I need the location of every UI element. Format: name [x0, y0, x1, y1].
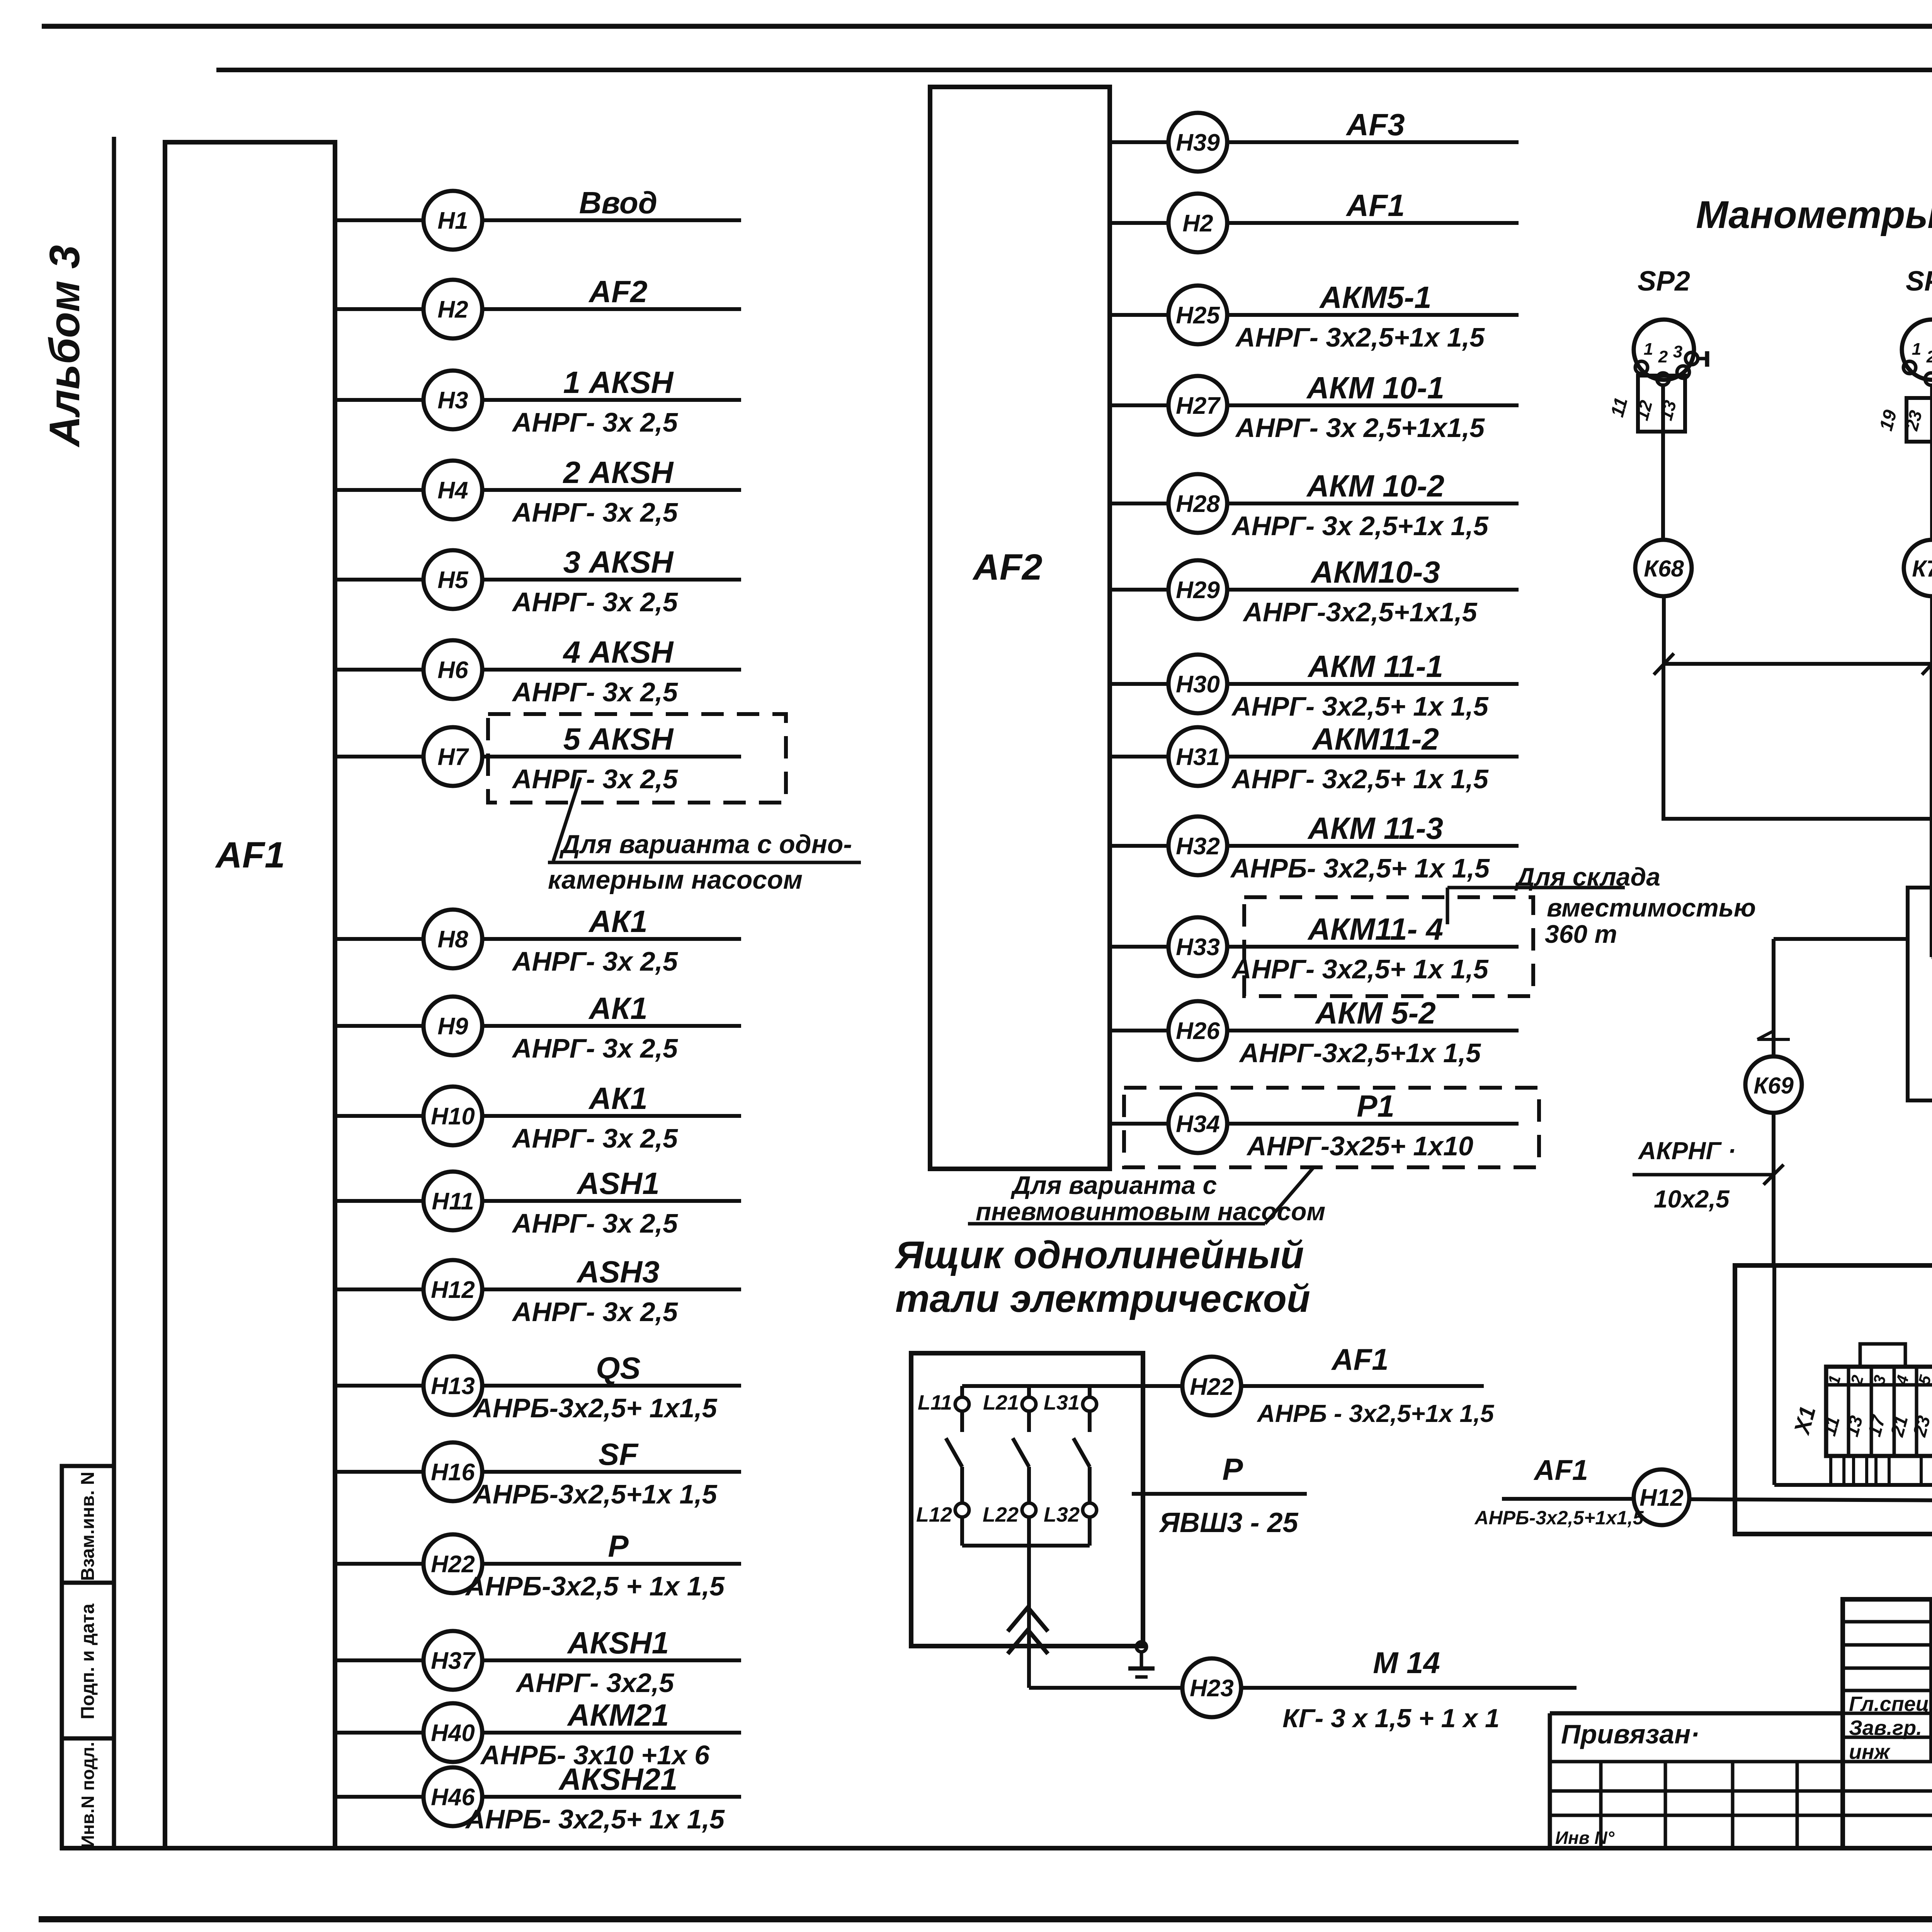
wire AF1 to Н10 — [335, 1114, 423, 1118]
wire K69 down to ASH3 — [1772, 1113, 1776, 1265]
svg-text:L21: L21 — [983, 1391, 1019, 1414]
svg-text:АК1: АК1 — [588, 904, 647, 939]
svg-text:АНРГ-3х2,5+1х 1,5: АНРГ-3х2,5+1х 1,5 — [1239, 1038, 1481, 1068]
svg-text:Ввод: Ввод — [579, 185, 657, 220]
svg-text:3 АКSН: 3 АКSН — [563, 545, 674, 579]
SР3 cable box — [1906, 398, 1932, 442]
svg-text:АНРГ- 3х 2,5: АНРГ- 3х 2,5 — [512, 587, 678, 617]
wire AF1 to Н1 — [335, 218, 423, 222]
svg-text:АНРБ-3х2,5+ 1х1,5: АНРБ-3х2,5+ 1х1,5 — [472, 1393, 717, 1423]
svg-text:АНРГ- 3х2,5+1х 1,5: АНРГ- 3х2,5+1х 1,5 — [1235, 322, 1485, 352]
wire Н28 feeder line — [1227, 502, 1519, 505]
relay circle К68 — [1635, 540, 1692, 596]
svg-text:Н10: Н10 — [431, 1103, 475, 1130]
svg-text:Н12: Н12 — [1639, 1485, 1684, 1511]
bus wire to H22 — [962, 1384, 1182, 1388]
svg-text:тали электрической: тали электрической — [895, 1277, 1310, 1320]
wire Н27 feeder line — [1227, 403, 1519, 407]
svg-text:Инв.N подл.: Инв.N подл. — [78, 1742, 98, 1848]
svg-text:Н28: Н28 — [1176, 491, 1220, 517]
svg-text:SF: SF — [599, 1437, 639, 1471]
SP2 wire through box — [1661, 383, 1665, 432]
stamp box divider 1 — [62, 1581, 114, 1585]
left margin stamp boxes — [62, 1466, 114, 1848]
wire AF1 to Н13 — [335, 1384, 423, 1388]
wire Н16 feeder line — [482, 1470, 741, 1474]
dashed option box around 5AKSH — [488, 714, 786, 803]
cabinet box AF2 — [930, 87, 1110, 1169]
sheet top border line — [42, 24, 1932, 29]
svg-text:АНРГ- 3х2,5: АНРГ- 3х2,5 — [515, 1668, 675, 1698]
svg-text:L12: L12 — [916, 1503, 952, 1526]
lamp circle Н27 — [1168, 376, 1227, 435]
svg-text:АКМ 5-2: АКМ 5-2 — [1315, 996, 1435, 1030]
svg-text:АF2: АF2 — [588, 274, 647, 309]
lamp circle Н40 — [423, 1703, 482, 1762]
svg-text:L11: L11 — [918, 1391, 952, 1414]
lamp circle Н39 — [1168, 113, 1227, 172]
svg-text:Н31: Н31 — [1176, 744, 1220, 770]
feeder arrow chevron 2 — [1008, 1630, 1048, 1654]
binding col divider — [1731, 1762, 1735, 1848]
svg-text:АНРГ- 3х 2,5+1х1,5: АНРГ- 3х 2,5+1х1,5 — [1235, 413, 1485, 443]
svg-text:АНРГ- 3х 2,5: АНРГ- 3х 2,5 — [512, 1208, 678, 1238]
wire AF2 to Н26 — [1110, 1029, 1168, 1032]
wire AF2 to Н28 — [1110, 502, 1168, 505]
wire Н8 feeder line — [482, 937, 741, 941]
wire AF1 to Н40 — [335, 1731, 423, 1735]
terminal strip X1 — [1826, 1367, 1932, 1456]
cable bus KRNG-4x1.0 — [1663, 662, 1932, 666]
svg-text:Н11: Н11 — [432, 1188, 474, 1215]
lamp circle Н16 — [423, 1442, 482, 1501]
wire AF1 to Н2 — [335, 307, 423, 311]
wire Н10 feeder line — [482, 1114, 741, 1118]
wire AF2 to Н25 — [1110, 313, 1168, 317]
svg-text:Н40: Н40 — [431, 1720, 475, 1747]
wire to H12 — [1502, 1497, 1632, 1501]
wire К70 to bus — [1930, 596, 1932, 664]
wire SР3 down to К70 — [1930, 384, 1932, 540]
stub to terminal L21 — [1027, 1386, 1031, 1397]
svg-text:SР3: SР3 — [1906, 266, 1932, 297]
lamp circle Н22 — [423, 1534, 482, 1593]
svg-text:К68: К68 — [1644, 556, 1684, 582]
svg-text:4 АКSН: 4 АКSН — [563, 635, 674, 669]
wire К68 to bus — [1662, 596, 1666, 664]
dashed option box P1 — [1124, 1088, 1539, 1167]
wire Н11 feeder line — [482, 1199, 741, 1203]
svg-text:2: 2 — [1926, 347, 1932, 366]
svg-text:1 АКSН: 1 АКSН — [563, 365, 674, 400]
binding row line — [1550, 1814, 1932, 1817]
svg-text:Н23: Н23 — [1190, 1675, 1234, 1702]
lamp circle Н29 — [1168, 560, 1227, 619]
wire AF2 to Н33 — [1110, 945, 1168, 949]
svg-text:L32: L32 — [1044, 1503, 1080, 1526]
earth bar 2 — [1135, 1675, 1148, 1679]
svg-text:SР2: SР2 — [1638, 266, 1690, 297]
frame bottom line — [60, 1846, 1932, 1850]
svg-text:Н7: Н7 — [437, 744, 469, 770]
svg-text:Н4: Н4 — [437, 477, 468, 504]
svg-text:К70: К70 — [1912, 556, 1932, 582]
lamp circle Н12 — [423, 1260, 482, 1319]
svg-text:Для варианта с: Для варианта с — [1010, 1171, 1217, 1199]
svg-text:5 АКSН: 5 АКSН — [563, 722, 674, 756]
collector wire — [962, 1544, 1090, 1548]
title row line — [1843, 1689, 1932, 1692]
terminal circle L22 — [1022, 1503, 1036, 1517]
terminal circle L12 — [955, 1503, 969, 1517]
svg-text:2: 2 — [1658, 347, 1668, 366]
svg-text:АF1: АF1 — [215, 835, 285, 876]
wire Н46 feeder line — [482, 1795, 741, 1799]
svg-text:Н3: Н3 — [437, 387, 468, 414]
terminal circle L11 — [955, 1397, 969, 1411]
svg-text:АНРГ- 3х2,5+ 1х 1,5: АНРГ- 3х2,5+ 1х 1,5 — [1231, 764, 1489, 794]
svg-text:АКSН21: АКSН21 — [558, 1762, 677, 1796]
lamp circle H22 — [1182, 1357, 1241, 1415]
lamp circle Н4 — [423, 461, 482, 519]
svg-text:Р: Р — [1222, 1452, 1243, 1486]
wire Н5 feeder line — [482, 578, 741, 582]
switch 3 lower lead — [1088, 1467, 1092, 1503]
lamp circle Н8 — [423, 910, 482, 968]
cable slash on K69 wire — [1764, 1165, 1784, 1185]
wire Н33 feeder line — [1227, 945, 1519, 949]
wire AF1 to Н46 — [335, 1795, 423, 1799]
X1 cell divider — [1915, 1367, 1918, 1456]
wire Н26 feeder line — [1227, 1029, 1519, 1032]
wire Н39 feeder line — [1227, 140, 1519, 144]
wire AF1 to Н8 — [335, 937, 423, 941]
wire below L12 — [960, 1517, 964, 1546]
note leader line — [553, 777, 580, 861]
svg-text:АF1: АF1 — [1331, 1342, 1388, 1376]
svg-text:АКМ 10-1: АКМ 10-1 — [1306, 371, 1444, 405]
switch 3 upper lead — [1088, 1411, 1092, 1432]
svg-text:АКМ 10-2: АКМ 10-2 — [1306, 469, 1444, 503]
note underline pnevmo — [968, 1222, 1265, 1226]
svg-text:АНРГ- 3х 2,5+1х 1,5: АНРГ- 3х 2,5+1х 1,5 — [1231, 511, 1489, 541]
wire H23 feeder — [1241, 1686, 1577, 1690]
lamp circle Н25 — [1168, 286, 1227, 344]
terminal circle L31 — [1083, 1397, 1097, 1411]
svg-text:К69: К69 — [1753, 1073, 1794, 1099]
collector wire to X2-1 — [1774, 1483, 1932, 1487]
wire AF1 to Н7 — [335, 755, 423, 759]
box YAVSH3-25 — [911, 1353, 1143, 1646]
lamp circle Н2 — [423, 280, 482, 338]
title row line — [1843, 1667, 1932, 1670]
wire AF2 to Н32 — [1110, 844, 1168, 848]
svg-text:Н13: Н13 — [431, 1373, 475, 1400]
feeder arrow chevron 1 — [1008, 1607, 1048, 1631]
svg-text:инж: инж — [1849, 1740, 1891, 1764]
svg-text:АКSН1: АКSН1 — [567, 1626, 669, 1660]
svg-text:L22: L22 — [983, 1503, 1019, 1526]
wire AF2 to Н30 — [1110, 682, 1168, 686]
svg-text:360 т: 360 т — [1545, 920, 1617, 948]
lamp circle Н30 — [1168, 655, 1227, 713]
svg-text:АКМ10-3: АКМ10-3 — [1310, 555, 1440, 589]
wire Н34 feeder line — [1227, 1122, 1519, 1126]
SР3 contact 1 — [1903, 361, 1916, 374]
X1 bottom stub — [1852, 1456, 1855, 1485]
binding box top — [1550, 1711, 1843, 1716]
svg-text:Манометры: Манометры — [1696, 193, 1932, 236]
wire AF1 to Н22 — [335, 1562, 423, 1566]
lamp circle Н1 — [423, 191, 482, 250]
lamp circle Н32 — [1168, 816, 1227, 875]
wire Н25 feeder line — [1227, 313, 1519, 317]
lamp circle Н31 — [1168, 727, 1227, 786]
relay circle K69 — [1745, 1056, 1802, 1113]
svg-text:камерным насосом: камерным насосом — [548, 865, 803, 895]
X1 cell divider — [1847, 1367, 1850, 1456]
stamp box divider 2 — [62, 1736, 114, 1741]
earth bar — [1128, 1667, 1155, 1671]
svg-text:Н6: Н6 — [437, 657, 468, 684]
svg-text:АКРНГ ·: АКРНГ · — [1638, 1137, 1736, 1165]
wire K68 feed to strip — [1663, 664, 1932, 842]
svg-text:АНРБ- 3х2,5+ 1х 1,5: АНРБ- 3х2,5+ 1х 1,5 — [465, 1804, 725, 1834]
svg-text:Р1: Р1 — [1357, 1089, 1395, 1123]
svg-text:АК1: АК1 — [588, 1081, 647, 1116]
svg-text:АSН1: АSН1 — [576, 1166, 659, 1201]
lamp circle Н6 — [423, 640, 482, 699]
svg-text:Н37: Н37 — [431, 1648, 476, 1674]
svg-text:Зав.гр.: Зав.гр. — [1849, 1716, 1922, 1740]
svg-text:Н8: Н8 — [437, 926, 468, 953]
svg-text:Альбом 3: Альбом 3 — [41, 245, 88, 448]
svg-text:АНРГ- 3х 2,5: АНРГ- 3х 2,5 — [512, 1033, 678, 1063]
switch 3 blade — [1073, 1438, 1090, 1467]
lamp circle Н28 — [1168, 474, 1227, 533]
svg-text:L31: L31 — [1044, 1391, 1080, 1414]
svg-text:АКМ5-1: АКМ5-1 — [1319, 280, 1431, 315]
wire Н1 feeder line — [482, 218, 741, 222]
svg-text:КГ- 3 х 1,5 + 1 х 1: КГ- 3 х 1,5 + 1 х 1 — [1282, 1704, 1500, 1733]
lamp circle Н13 — [423, 1356, 482, 1415]
svg-text:Для склада: Для склада — [1514, 862, 1660, 891]
svg-text:АНРГ- 3х 2,5: АНРГ- 3х 2,5 — [512, 764, 678, 794]
binding row line — [1550, 1789, 1932, 1793]
svg-text:АНРГ- 3х 2,5: АНРГ- 3х 2,5 — [512, 946, 678, 976]
title row line — [1843, 1712, 1932, 1715]
svg-text:Н5: Н5 — [437, 567, 469, 594]
wire AF1 to Н5 — [335, 578, 423, 582]
svg-text:Подп. и дата: Подп. и дата — [78, 1604, 98, 1719]
earth stem — [1140, 1652, 1143, 1668]
svg-text:АНРБ- 3х2,5+ 1х 1,5: АНРБ- 3х2,5+ 1х 1,5 — [1230, 853, 1490, 883]
svg-text:1: 1 — [1644, 340, 1653, 359]
title row line — [1843, 1620, 1932, 1624]
inner frame top line — [216, 68, 1932, 72]
svg-text:АF3: АF3 — [1345, 107, 1405, 142]
svg-text:АНРГ- 3х 2,5: АНРГ- 3х 2,5 — [512, 1297, 678, 1327]
svg-text:Для варианта с одно-: Для варианта с одно- — [559, 830, 852, 859]
svg-text:АНРБ-3х2,5+1х 1,5: АНРБ-3х2,5+1х 1,5 — [472, 1479, 717, 1509]
title row line — [1843, 1643, 1932, 1647]
svg-text:вместимостью: вместимостью — [1547, 893, 1756, 922]
svg-text:Н39: Н39 — [1176, 129, 1220, 156]
svg-text:Н25: Н25 — [1176, 302, 1220, 329]
stub to terminal L11 — [960, 1386, 964, 1397]
lamp circle Н2 — [1168, 194, 1227, 252]
svg-text:АF1: АF1 — [1345, 188, 1405, 223]
wire AF2 to Н34 — [1110, 1122, 1168, 1126]
left frame vertical line — [112, 137, 116, 1466]
note underline — [548, 861, 861, 864]
svg-text:Н2: Н2 — [437, 296, 468, 323]
svg-text:АКМ 11-1: АКМ 11-1 — [1307, 649, 1443, 684]
lamp circle Н11 — [423, 1172, 482, 1230]
svg-text:Взам.инв. N: Взам.инв. N — [78, 1472, 98, 1581]
wire AF1 to Н16 — [335, 1470, 423, 1474]
wire AF2 to Н2 — [1110, 221, 1168, 225]
SР2 pointer lead — [1698, 357, 1707, 361]
wire AF1 to Н6 — [335, 668, 423, 672]
svg-text:АНРБ - 3х2,5+1х 1,5: АНРБ - 3х2,5+1х 1,5 — [1257, 1400, 1495, 1427]
wire down to H23 — [1027, 1546, 1031, 1688]
lamp circle Н33 — [1168, 917, 1227, 976]
wire to H23 — [1029, 1686, 1182, 1690]
svg-text:Р: Р — [608, 1529, 629, 1563]
cable slash mark — [1654, 653, 1674, 675]
svg-text:АНРГ- 3х 2,5: АНРГ- 3х 2,5 — [512, 407, 678, 437]
svg-text:АНРГ-3х25+ 1х10: АНРГ-3х25+ 1х10 — [1246, 1131, 1473, 1161]
X1 bottom stub — [1874, 1456, 1878, 1485]
X1 bottom stub — [1920, 1456, 1923, 1485]
wire Н6 feeder line — [482, 668, 741, 672]
wire Н30 feeder line — [1227, 682, 1519, 686]
svg-text:пневмовинтовым насосом: пневмовинтовым насосом — [976, 1197, 1325, 1226]
svg-text:Н9: Н9 — [437, 1013, 468, 1040]
svg-text:АНРБ-3х2,5+1х1,5: АНРБ-3х2,5+1х1,5 — [1474, 1507, 1644, 1529]
switch 2 blade — [1013, 1438, 1029, 1467]
svg-text:Н27: Н27 — [1176, 393, 1221, 419]
svg-text:Н16: Н16 — [431, 1459, 475, 1486]
wire Н2 feeder line — [482, 307, 741, 311]
pressure gauge SР2 — [1634, 320, 1694, 380]
wire AF1 to Н12 — [335, 1287, 423, 1291]
svg-text:Н33: Н33 — [1176, 934, 1220, 961]
wire to K69 — [1774, 888, 1932, 939]
lamp circle Н37 — [423, 1631, 482, 1690]
lamp circle H12 — [1634, 1469, 1689, 1525]
wire Н9 feeder line — [482, 1024, 741, 1028]
svg-text:Инв N°: Инв N° — [1555, 1828, 1615, 1848]
wire Н4 feeder line — [482, 488, 741, 492]
underline Для склада — [1447, 886, 1625, 889]
binding row line — [1550, 1760, 1932, 1764]
svg-text:Н2: Н2 — [1182, 210, 1213, 237]
X1 bottom stub — [1829, 1456, 1832, 1485]
cabinet box ASH3 — [1735, 1265, 1932, 1534]
lamp circle Н26 — [1168, 1001, 1227, 1060]
svg-text:АНРГ- 3х 2,5: АНРГ- 3х 2,5 — [512, 1123, 678, 1153]
wire Н2 feeder line — [1227, 221, 1519, 225]
dashed option box AKM11-4 — [1244, 897, 1533, 996]
binding col divider — [1664, 1762, 1667, 1848]
SP2 cable box — [1638, 376, 1685, 432]
svg-text:Гл.спец.: Гл.спец. — [1849, 1692, 1932, 1716]
svg-text:АF2: АF2 — [972, 547, 1042, 588]
svg-text:АКМ 11-3: АКМ 11-3 — [1307, 811, 1443, 845]
svg-text:АК1: АК1 — [588, 991, 647, 1026]
wire below L32 — [1088, 1517, 1092, 1546]
svg-text:Привязан·: Привязан· — [1561, 1719, 1700, 1749]
lamp circle Н10 — [423, 1087, 482, 1145]
svg-text:Н34: Н34 — [1176, 1111, 1220, 1138]
svg-text:3: 3 — [1673, 342, 1682, 361]
lamp circle H23 — [1182, 1658, 1241, 1717]
wire SP2 down to K68 — [1661, 432, 1665, 540]
svg-text:Н30: Н30 — [1176, 671, 1220, 698]
relay circle К70 — [1904, 540, 1932, 596]
wire AF2 to Н29 — [1110, 588, 1168, 592]
SР2 contact 1 — [1635, 361, 1648, 374]
svg-text:1: 1 — [1912, 340, 1921, 359]
K69 cable inside ASH3 — [1772, 1265, 1776, 1485]
X1 jumper bridge — [1860, 1344, 1905, 1367]
wire H22 feeder — [1241, 1384, 1484, 1388]
switch 2 lower lead — [1027, 1467, 1031, 1503]
leader line to AKM11-4 box — [1446, 888, 1449, 924]
X1 header divider — [1826, 1383, 1932, 1387]
binding col divider — [1796, 1762, 1799, 1848]
switch 2 upper lead — [1027, 1411, 1031, 1432]
svg-text:АНРГ- 3х2,5+ 1х 1,5: АНРГ- 3х2,5+ 1х 1,5 — [1231, 691, 1489, 721]
svg-text:Н22: Н22 — [1190, 1374, 1234, 1400]
SР3 contact 2 — [1925, 373, 1932, 385]
SР2 contact 3 — [1677, 366, 1689, 378]
X1 cell divider — [1893, 1367, 1896, 1456]
wire AF1 to Н9 — [335, 1024, 423, 1028]
title col divider 1 — [1929, 1599, 1932, 1762]
svg-text:АКМ21: АКМ21 — [567, 1698, 669, 1732]
svg-text:АНРГ-3х2,5+1х1,5: АНРГ-3х2,5+1х1,5 — [1242, 597, 1477, 627]
wire AF2 to Н31 — [1110, 755, 1168, 759]
wire K69 to terminal 19 bottom — [1908, 939, 1932, 1100]
SР2 contact 2 — [1657, 373, 1669, 385]
SР2 output contact — [1685, 352, 1698, 365]
wire Н3 feeder line — [482, 398, 741, 402]
svg-text:Н12: Н12 — [431, 1277, 475, 1303]
title row line — [1843, 1736, 1932, 1739]
svg-text:АSН3: АSН3 — [576, 1255, 659, 1289]
lamp circle Н9 — [423, 997, 482, 1055]
wire Н7 feeder line — [482, 755, 741, 759]
title block outline — [1843, 1599, 1932, 1848]
label line AKRNG — [1633, 1173, 1774, 1177]
lamp circle Н7 — [423, 727, 482, 786]
stub to terminal L31 — [1088, 1386, 1092, 1397]
svg-text:АНРГ- 3х 2,5: АНРГ- 3х 2,5 — [512, 497, 678, 527]
svg-text:10х2,5: 10х2,5 — [1654, 1185, 1730, 1213]
lamp circle Н34 — [1168, 1094, 1227, 1153]
svg-text:2 АКSН: 2 АКSН — [563, 455, 674, 490]
wire K70 down — [1930, 664, 1932, 957]
svg-text:Н1: Н1 — [437, 207, 468, 234]
svg-text:QS: QS — [596, 1351, 641, 1385]
svg-text:М 14: М 14 — [1373, 1646, 1440, 1680]
earth node circle — [1136, 1642, 1146, 1652]
svg-text:АНРГ- 3х2,5+ 1х 1,5: АНРГ- 3х2,5+ 1х 1,5 — [1231, 954, 1489, 984]
wire AF1 to Н37 — [335, 1658, 423, 1662]
